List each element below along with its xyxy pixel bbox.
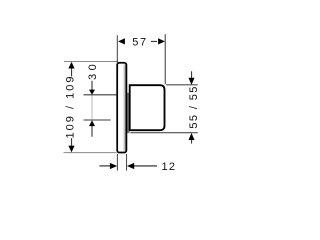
dimension 12: right arrow (points left)	[127, 163, 134, 169]
dimension 55/55: up arrow (below bottom line)	[189, 133, 195, 140]
dimension 109/109: top arrow	[68, 62, 74, 69]
technical dimension drawing: wall-mounted valve trim, side view	[0, 0, 250, 214]
extension line: 57 right	[164, 34, 166, 84]
svg-text:109 / 109: 109 / 109	[64, 77, 76, 139]
extension line: plate top (109/109 top)	[64, 61, 118, 63]
dimension 55/55: lower tail	[191, 140, 193, 144]
extension line: 57 left tick	[116, 35, 118, 63]
extension line: neck bottom (55/55 bottom)	[130, 132, 197, 134]
dimension 55/55: down arrow (above top line)	[189, 78, 195, 85]
neck between plate and handle	[127, 93, 130, 133]
dimension 30: down arrow (above top line)	[89, 90, 95, 95]
escutcheon plate (side view)	[117, 63, 126, 153]
extension line: 12 right	[126, 154, 128, 171]
dimension 30: connector	[91, 96, 93, 120]
svg-text:57: 57	[132, 36, 146, 48]
handle (side view)	[130, 85, 165, 130]
plate inner shading	[122, 64, 126, 151]
svg-text:12: 12	[161, 161, 175, 173]
dimension 109/109: lower tail	[71, 138, 73, 146]
dimension 57: right arrow	[158, 38, 165, 44]
extension line: 30 bottom	[84, 119, 111, 121]
dimension 12: left arrow (points right)	[110, 163, 117, 169]
dimension 109/109: upper tail	[71, 68, 73, 76]
extension line: 12 left	[116, 154, 118, 171]
dimension 109/109: bottom arrow	[68, 146, 74, 153]
dimension 12: left tail	[99, 165, 110, 167]
dimension 30: lower tail	[91, 126, 93, 137]
dimension 12: right tail	[134, 165, 157, 167]
dimension 55/55: upper tail	[191, 71, 193, 78]
dimension 57: left arrow	[118, 38, 125, 44]
dimension 30: up arrow (below bottom line)	[89, 120, 95, 126]
extension line: handle top (55/55 top)	[166, 84, 198, 86]
dimension 30: upper tail	[91, 81, 93, 90]
extension line: plate bottom (109/109 bottom)	[64, 152, 117, 154]
extension line: 30 top	[84, 94, 132, 96]
dimension 57: right tail	[151, 40, 157, 42]
